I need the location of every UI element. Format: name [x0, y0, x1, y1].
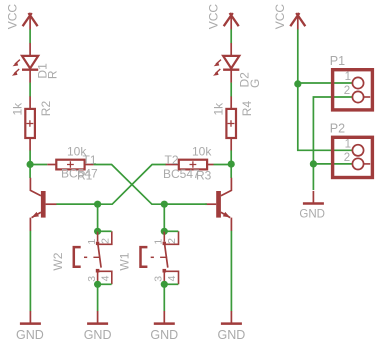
ground W2 [84, 311, 112, 342]
junction VCC/P1 [294, 80, 301, 87]
power symbol VCC (mid) [206, 4, 238, 30]
wire node to T1 collector [29, 164, 31, 178]
svg-text:1k: 1k [212, 102, 226, 116]
wire W1 bottom pin4 [164, 283, 178, 285]
svg-text:2: 2 [99, 238, 111, 244]
wire P1 pin2 to node [313, 97, 352, 164]
transistor T1 BC547 [30, 178, 56, 231]
svg-text:1: 1 [345, 139, 351, 151]
LED D2 (G) [213, 43, 262, 88]
svg-text:P1: P1 [330, 54, 345, 68]
resistor R3 10k [166, 160, 214, 170]
svg-text:4: 4 [166, 275, 178, 281]
svg-text:2: 2 [344, 152, 350, 164]
resistor R2 1k [11, 96, 53, 150]
wire T2 emitter to GND [230, 231, 232, 311]
label R3/T2 [163, 145, 212, 183]
power symbol VCC (right) [273, 4, 305, 30]
ground T1 [16, 311, 44, 342]
svg-text:GND: GND [299, 208, 325, 220]
resistor R4 1k [212, 96, 254, 150]
wire T2 base [164, 203, 207, 205]
wire R4 to node [230, 150, 232, 164]
svg-text:1: 1 [345, 71, 351, 83]
wire T1 base to R3 (diagonal) [57, 165, 167, 205]
svg-text:R: R [46, 70, 60, 79]
wire VCC to D1 [29, 29, 31, 43]
svg-text:VCC: VCC [273, 4, 287, 30]
wire junction to W1 [163, 204, 165, 231]
svg-text:R1: R1 [77, 169, 93, 183]
svg-text:GND: GND [16, 328, 44, 342]
wire R3 to right node [214, 164, 232, 166]
svg-text:2: 2 [166, 238, 178, 244]
svg-text:GND: GND [218, 328, 246, 342]
wire W1 top pin2 [164, 230, 178, 232]
ground T2 [218, 311, 246, 342]
switch W1 [118, 231, 179, 284]
svg-text:4: 4 [99, 275, 111, 281]
junction P-gnd [310, 160, 317, 167]
ground W1 [150, 311, 178, 342]
wire node to R1 [30, 164, 47, 166]
svg-text:T2: T2 [165, 153, 179, 167]
svg-text:G: G [248, 79, 262, 88]
wire D1 to R2 [29, 83, 31, 97]
svg-text:R4: R4 [240, 101, 254, 117]
svg-text:3: 3 [86, 276, 98, 282]
wire node to GND [312, 164, 314, 190]
junction node left [27, 161, 34, 168]
junction base T1 / W2 [94, 201, 101, 208]
wire VCC to P1.1 [297, 29, 299, 84]
wire W2 top pin2 [98, 230, 112, 232]
resistor R1 10k [47, 160, 93, 170]
junction node right [228, 161, 235, 168]
svg-text:GND: GND [150, 328, 178, 342]
wire to P1 pin1 [298, 82, 353, 84]
wire W2 to GND [97, 284, 99, 311]
label R1/T1 [61, 145, 98, 183]
wire T1 base [56, 203, 97, 205]
wire VCC to P2 pin1 [298, 84, 353, 150]
svg-text:P2: P2 [330, 121, 345, 135]
wire W1 to GND [163, 284, 165, 311]
svg-text:VCC: VCC [5, 4, 19, 30]
wire T1 emitter to GND [29, 231, 31, 311]
svg-text:VCC: VCC [206, 4, 220, 30]
junction W1 top [161, 228, 168, 235]
svg-text:10k: 10k [192, 145, 212, 159]
wire R1 to T2 base (diagonal) [94, 165, 207, 205]
junction W2 top [94, 228, 101, 235]
svg-text:2: 2 [344, 85, 350, 97]
power symbol VCC (left) [5, 4, 37, 30]
svg-text:R3: R3 [196, 169, 212, 183]
wire D2 to R4 [230, 83, 232, 97]
svg-text:W1: W1 [118, 252, 132, 270]
svg-text:GND: GND [84, 328, 112, 342]
connector P2 [330, 121, 373, 177]
wire R2 to node [29, 150, 31, 164]
svg-text:3: 3 [153, 276, 165, 282]
switch W2 [51, 231, 112, 284]
wire node to P2 pin2 [313, 163, 352, 165]
svg-text:BC547: BC547 [163, 167, 200, 181]
svg-text:W2: W2 [51, 252, 65, 270]
LED D1 (R) [12, 43, 60, 83]
svg-text:1k: 1k [11, 102, 25, 116]
junction W2 bottom [94, 281, 101, 288]
svg-text:R2: R2 [39, 101, 53, 117]
wire VCC to D2 [230, 29, 232, 43]
connector P1 [330, 54, 373, 110]
junction W1 bottom [161, 281, 168, 288]
svg-text:1: 1 [86, 239, 98, 245]
svg-text:1: 1 [153, 239, 165, 245]
wire node to T2 collector [230, 164, 232, 178]
ground P [299, 191, 325, 221]
transistor T2 BC547 [205, 178, 231, 231]
junction base T2 / W1 [161, 201, 168, 208]
wire W2 bottom pin4 [98, 283, 112, 285]
wire junction to W2 [97, 204, 99, 231]
